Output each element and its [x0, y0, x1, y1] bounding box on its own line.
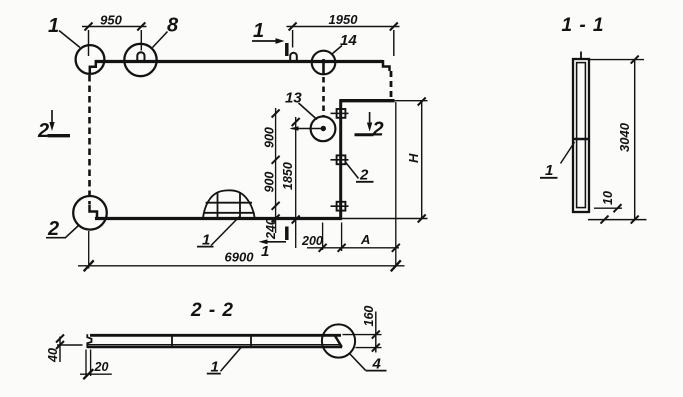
section 2-2 joint divider b	[250, 336, 252, 347]
leader of label 8	[153, 32, 168, 48]
leader of dome label 1	[211, 217, 240, 246]
svg-text:900: 900	[263, 172, 277, 193]
leader of label 1	[59, 31, 80, 48]
plan bottom-left corner step	[90, 205, 98, 219]
svg-text:4: 4	[372, 356, 382, 373]
svg-text:10: 10	[601, 191, 615, 205]
anchor loop in circle 8	[137, 52, 144, 61]
extension lines for 200	[322, 223, 324, 251]
svg-text:2: 2	[359, 167, 369, 184]
svg-text:13: 13	[285, 90, 302, 107]
svg-text:900: 900	[263, 127, 277, 148]
svg-text:1950: 1950	[329, 12, 359, 27]
section 1-1 dimension 10	[594, 207, 622, 209]
svg-text:14: 14	[340, 32, 357, 49]
section 1-1 leader of label 1	[561, 142, 575, 164]
section 2-2 dimension 20	[80, 350, 112, 377]
section 2-2 joint divider a	[171, 336, 173, 347]
svg-text:1: 1	[253, 20, 264, 42]
svg-text:1: 1	[48, 15, 59, 37]
section 2-2 left end with notch	[87, 334, 91, 348]
dimension line 1850	[295, 117, 297, 248]
svg-text:2: 2	[47, 218, 59, 240]
weld plate mark middle	[331, 155, 349, 164]
weld plate mark top	[331, 109, 349, 118]
dimension line 200 / A	[307, 247, 399, 249]
leader of label 14	[332, 46, 342, 55]
svg-text:1: 1	[211, 359, 219, 376]
svg-text:1 - 1: 1 - 1	[561, 15, 604, 36]
svg-text:1: 1	[545, 162, 553, 179]
callout circle 14 (on top edge)	[312, 51, 336, 75]
svg-text:8: 8	[167, 15, 179, 37]
dimension 6900	[78, 265, 405, 267]
section 2-2 leader of label 1	[221, 348, 242, 372]
section marker 2 (left)	[48, 110, 71, 136]
anchor loop at section line	[290, 53, 297, 62]
section 2-2 dimension 160	[343, 312, 382, 353]
cutout ledge edge	[340, 99, 395, 102]
svg-text:1850: 1850	[281, 162, 295, 190]
section 1-1 panel inner	[577, 63, 586, 208]
section 1-1 top stub	[580, 52, 582, 60]
dimension line 900/900/240	[275, 108, 277, 233]
svg-text:3040: 3040	[617, 122, 632, 152]
svg-text:6900: 6900	[225, 250, 255, 265]
section 1-1 panel outer	[573, 59, 589, 212]
section 2-2 slanted end cap	[334, 335, 342, 347]
dimension 950	[82, 27, 147, 57]
dimension H (vertical right)	[342, 101, 428, 220]
callout circle 1 (top-left corner)	[76, 45, 105, 74]
callout circle 8 (anchor loop)	[124, 44, 156, 76]
section marker 1 (bottom)	[259, 227, 287, 245]
section 1-1 joint divider	[573, 138, 589, 141]
plan left edge (hidden, dashed)	[88, 75, 91, 204]
svg-text:1: 1	[261, 243, 269, 260]
callout circle 2 (bottom-left corner)	[73, 196, 107, 230]
right extension line	[395, 102, 397, 267]
cutout inner vertical edge	[339, 100, 342, 220]
svg-text:20: 20	[94, 360, 109, 374]
svg-text:950: 950	[100, 13, 122, 28]
leader of label 4	[350, 354, 366, 371]
svg-text:2: 2	[37, 120, 49, 142]
section marker 1 (top)	[252, 38, 287, 56]
callout circle 4 (slab end)	[322, 324, 355, 357]
weld plate mark bottom	[331, 202, 349, 211]
plan right edge (hidden, dashed)	[390, 71, 393, 98]
callout circle 13 (embed with dot)	[311, 116, 336, 141]
leader of label 2	[66, 226, 79, 238]
svg-text:1: 1	[202, 232, 210, 249]
plan bottom edge	[95, 217, 342, 220]
dashed joint line 14-13	[322, 77, 325, 116]
svg-text:240: 240	[264, 218, 278, 240]
leader of weld label 2	[345, 162, 359, 179]
svg-text:40: 40	[46, 348, 60, 363]
plan top-left corner step	[90, 60, 96, 73]
lifting loop dome	[203, 190, 255, 218]
section 2-2 slab top edge	[90, 334, 341, 337]
svg-text:2 - 2: 2 - 2	[190, 300, 234, 321]
plan top edge	[95, 60, 383, 63]
svg-text:A: A	[360, 232, 370, 247]
section 2-2 dimension 40	[57, 337, 83, 363]
dimension 1950	[287, 27, 400, 57]
leader of label 13	[299, 103, 318, 120]
svg-text:160: 160	[362, 306, 376, 327]
svg-text:2: 2	[372, 119, 384, 141]
section marker 2 (top right)	[355, 112, 374, 135]
section 1-1 dimension 3040	[588, 60, 647, 220]
plan top-right corner step	[383, 60, 390, 71]
section 2-2 slab bottom lines	[88, 344, 342, 346]
svg-text:200: 200	[301, 234, 323, 248]
svg-text:H: H	[406, 153, 421, 163]
